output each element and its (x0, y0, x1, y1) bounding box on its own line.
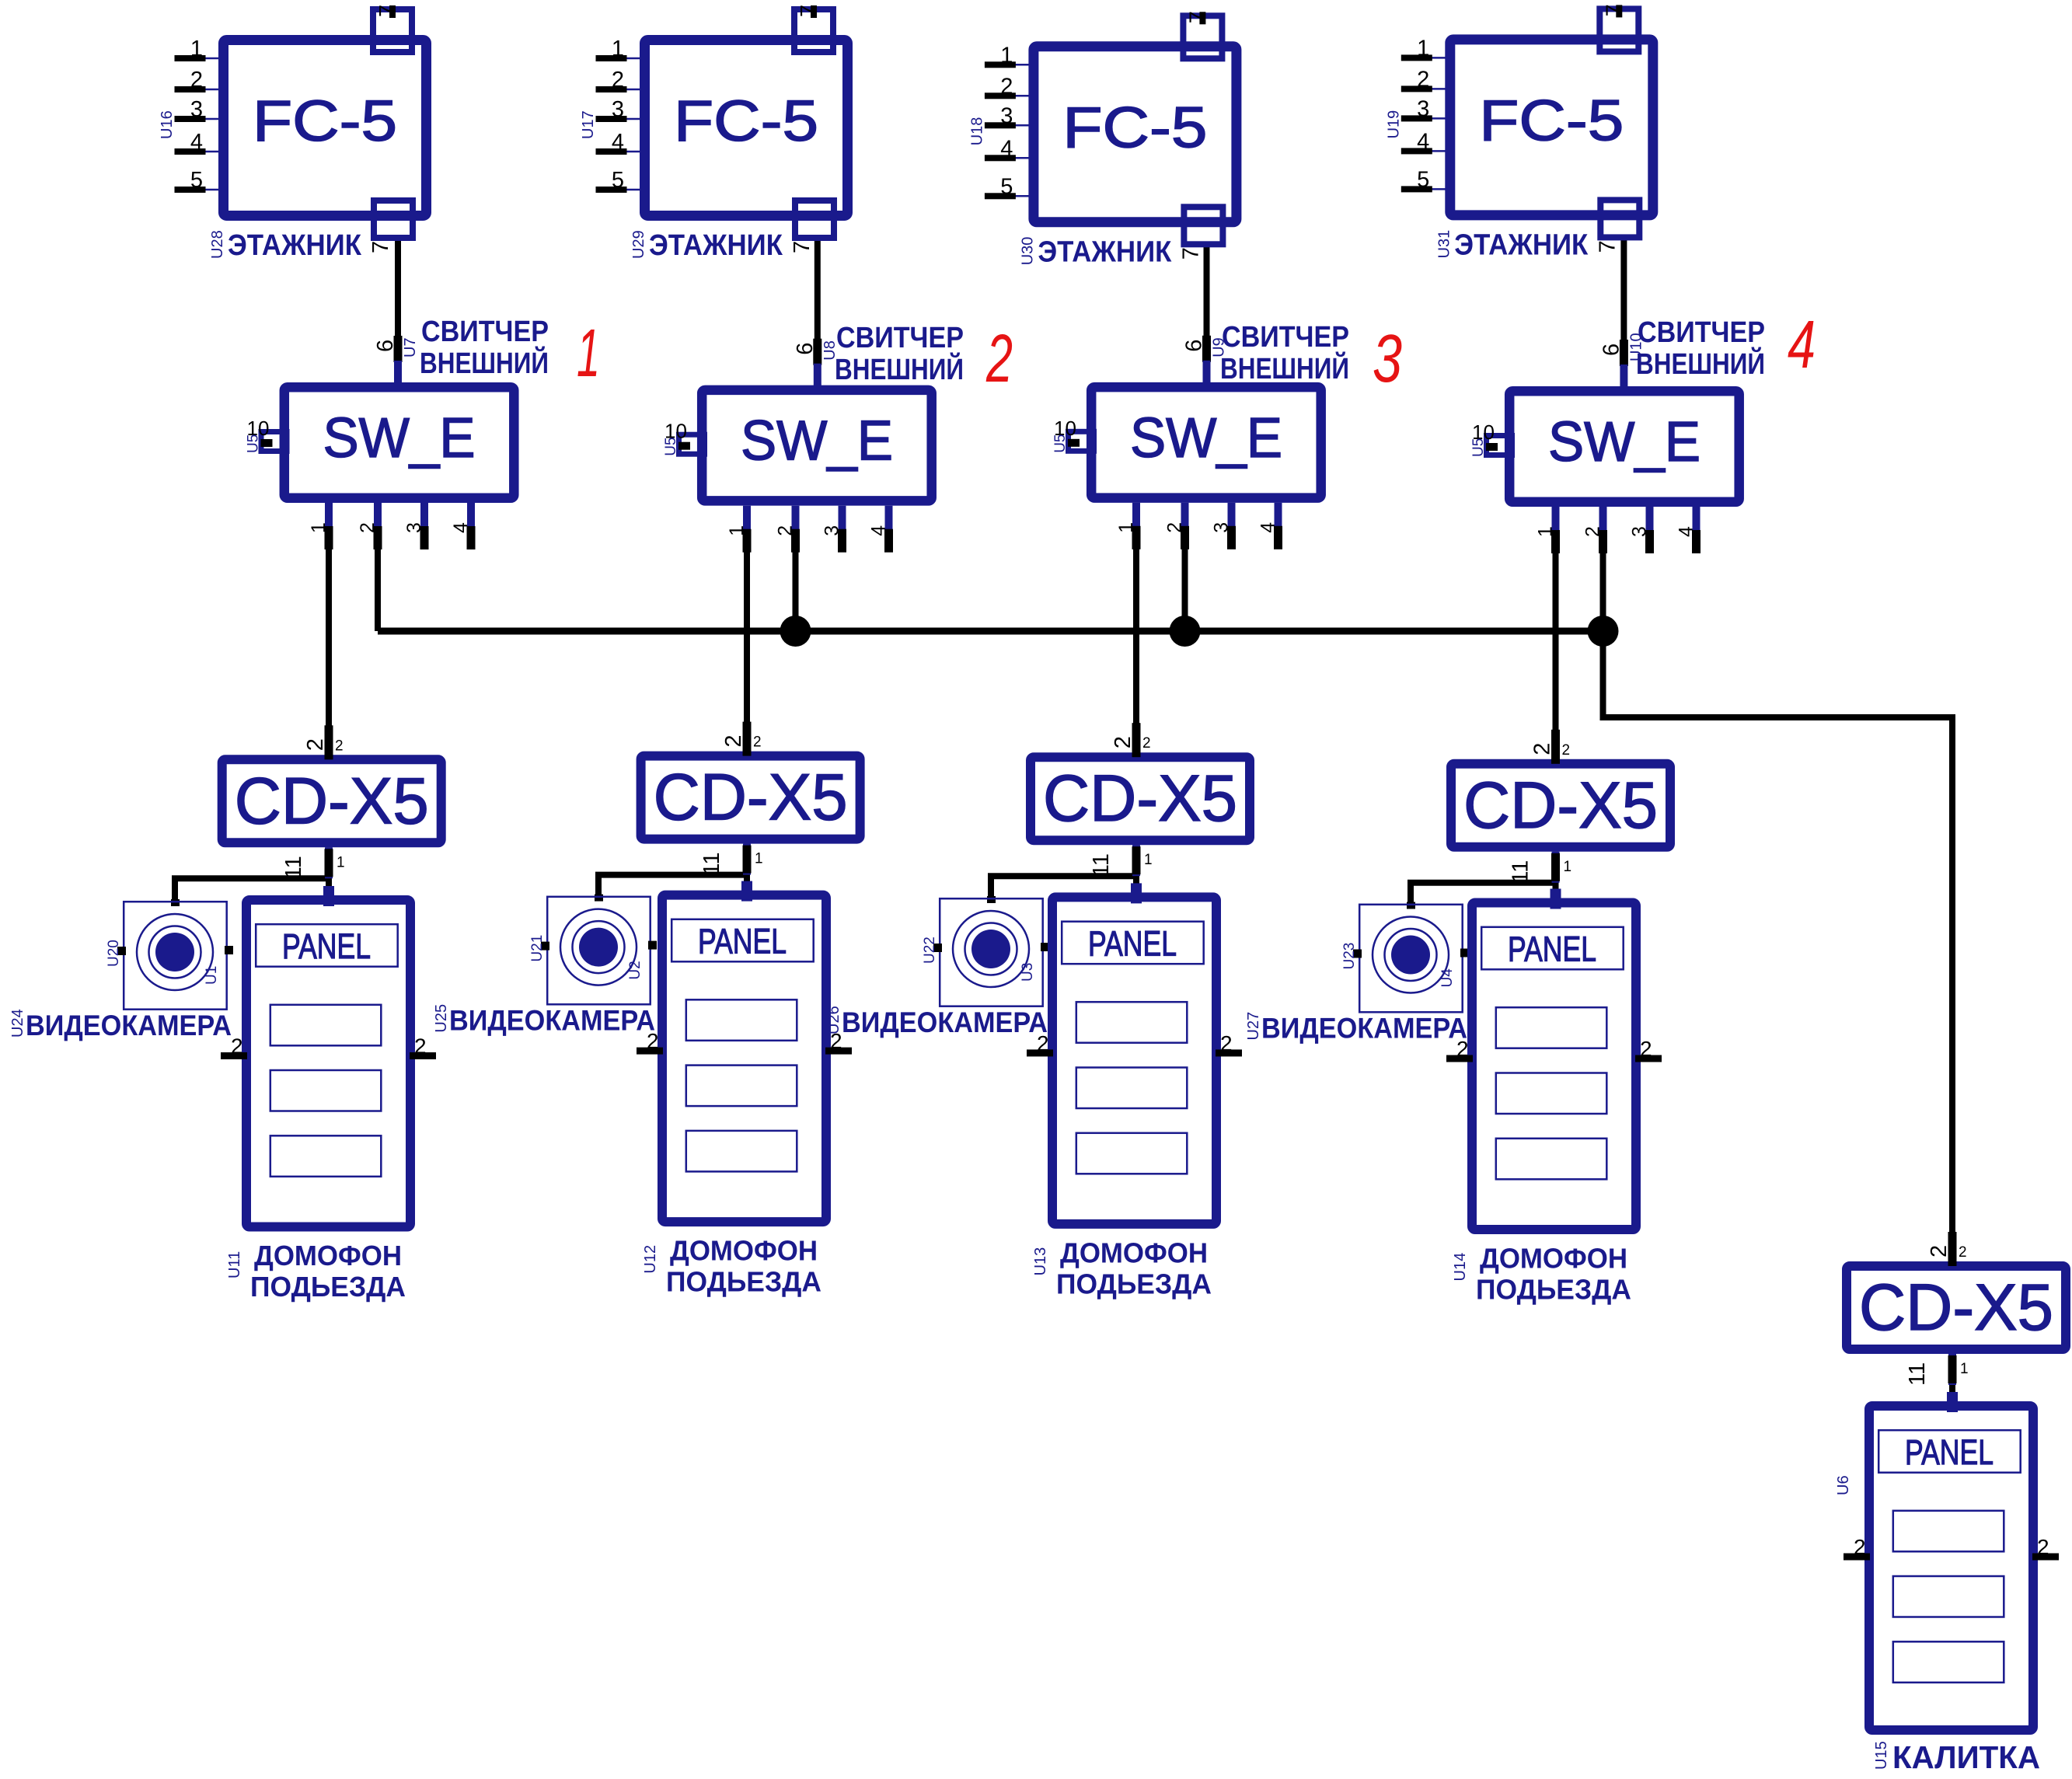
button window 3 (1893, 1641, 2004, 1683)
svg-text:2: 2 (1417, 67, 1429, 92)
svg-text:2: 2 (1582, 526, 1604, 537)
svg-text:2: 2 (1562, 742, 1571, 759)
pin 11/1 (bottom) of U11 distributor (325, 847, 333, 878)
svg-text:U26: U26 (825, 1006, 842, 1034)
svg-text:U17: U17 (580, 110, 597, 139)
video distributor CD-X5 block U6 gate distributor (1847, 1266, 2066, 1349)
svg-text:4: 4 (1000, 136, 1013, 161)
button window 1 (686, 999, 797, 1041)
pin 5 of U19 (1432, 188, 1446, 190)
left pin 2 of panel (1446, 1055, 1473, 1062)
svg-text:ВИДЕОКАМЕРА: ВИДЕОКАМЕРА (26, 1010, 232, 1041)
svg-text:2: 2 (190, 68, 203, 92)
pin 4 stub of U10 (1693, 507, 1701, 552)
pin 3 of U16 (205, 118, 220, 120)
svg-text:1: 1 (1960, 1361, 1969, 1377)
svg-text:3: 3 (612, 97, 624, 122)
bottom connector pin 7 of U29 (795, 201, 834, 238)
pin 11/1 (bottom) of U12 distributor (743, 844, 751, 875)
junction node col 4 (1588, 616, 1619, 647)
svg-text:SW_E: SW_E (323, 407, 476, 469)
intercom panel block U6 gate panel (1869, 1406, 2033, 1730)
svg-text:4: 4 (1258, 522, 1279, 533)
pin 6 stub of U8 (814, 364, 821, 387)
svg-text:U7: U7 (402, 337, 419, 358)
svg-text:FC-5: FC-5 (674, 89, 818, 153)
panel top pin stub col 4 (1551, 889, 1561, 909)
svg-text:2: 2 (1530, 743, 1555, 755)
svg-text:CD-X5: CD-X5 (1043, 762, 1237, 835)
pin 4 of U16 (205, 151, 220, 153)
svg-text:11: 11 (281, 856, 306, 879)
top connector pin 7 of U19 (1599, 9, 1638, 51)
svg-text:ВИДЕОКАМЕРА: ВИДЕОКАМЕРА (1261, 1013, 1467, 1045)
svg-text:5: 5 (190, 168, 203, 193)
svg-text:U23: U23 (1341, 943, 1358, 970)
video camera symbol U3 column 3 (940, 898, 1043, 1006)
svg-text:3: 3 (403, 522, 425, 533)
svg-text:4: 4 (1417, 129, 1429, 154)
svg-text:ЭТАЖНИК: ЭТАЖНИК (1454, 228, 1589, 261)
svg-text:ВНЕШНИЙ: ВНЕШНИЙ (420, 345, 549, 380)
PANEL label box (1878, 1430, 2021, 1473)
pin 2 stub of U10 (1599, 507, 1607, 552)
video camera symbol U2 column 2 (547, 897, 651, 1005)
svg-text:CD-X5: CD-X5 (654, 761, 848, 834)
svg-text:PANEL: PANEL (282, 926, 371, 966)
wire branch to camera col 4 (1411, 883, 1556, 907)
svg-text:2: 2 (753, 734, 762, 751)
svg-text:2: 2 (721, 734, 746, 747)
svg-text:2: 2 (775, 525, 797, 536)
intercom panel block U11 (246, 900, 410, 1227)
svg-text:FC-5: FC-5 (1479, 88, 1624, 152)
svg-text:7: 7 (1185, 11, 1210, 23)
pin 10 connector of U7 (261, 432, 287, 452)
svg-text:1: 1 (577, 316, 600, 391)
gate panel top pin stub (1947, 1392, 1958, 1412)
bottom connector pin 7 of U30 (1184, 207, 1223, 244)
svg-text:6: 6 (373, 340, 398, 352)
svg-text:U11: U11 (226, 1251, 243, 1278)
svg-text:1: 1 (1000, 43, 1013, 68)
svg-text:U15: U15 (1873, 1741, 1890, 1770)
svg-text:7: 7 (375, 5, 400, 17)
svg-text:ДОМОФОН: ДОМОФОН (254, 1240, 402, 1271)
svg-text:СВИТЧЕР: СВИТЧЕР (1638, 316, 1765, 349)
pin 11/1 (bottom) of U13 distributor (1132, 845, 1140, 876)
svg-text:U22: U22 (922, 937, 938, 964)
svg-text:3: 3 (1000, 103, 1013, 128)
svg-text:5: 5 (1417, 167, 1429, 192)
svg-text:PANEL: PANEL (1088, 923, 1177, 963)
svg-text:PANEL: PANEL (1905, 1432, 1994, 1472)
camera top pin tip col 2 (595, 895, 603, 902)
svg-text:4: 4 (450, 522, 472, 533)
svg-text:CD-X5: CD-X5 (1859, 1271, 2053, 1344)
svg-text:ВНЕШНИЙ: ВНЕШНИЙ (1220, 351, 1349, 385)
svg-text:2: 2 (335, 738, 344, 754)
svg-text:U20: U20 (106, 940, 122, 967)
PANEL label box (1481, 927, 1624, 970)
svg-text:ЭТАЖНИК: ЭТАЖНИК (228, 229, 362, 262)
svg-text:U31: U31 (1435, 230, 1453, 259)
svg-text:2: 2 (1111, 736, 1135, 748)
svg-text:U21: U21 (529, 935, 546, 962)
svg-text:4: 4 (612, 130, 624, 155)
pin 1 of U18 (1015, 64, 1030, 66)
svg-text:U13: U13 (1032, 1247, 1049, 1276)
wire FC-5 pin7 to SW_E pin6 col 4 (1620, 235, 1627, 366)
button window 3 (270, 1135, 382, 1177)
svg-text:U28: U28 (209, 230, 226, 259)
svg-text:7: 7 (1595, 240, 1620, 253)
pin 3 stub of U10 (1646, 507, 1654, 552)
svg-text:2: 2 (303, 738, 328, 751)
svg-text:4: 4 (190, 130, 203, 155)
svg-text:1: 1 (1564, 859, 1572, 875)
pin 6 black tip col 4 (1620, 340, 1628, 366)
pin 3 of U18 (1015, 124, 1030, 127)
bottom connector pin 7 of U28 (374, 201, 413, 238)
junction node col 3 (1170, 616, 1201, 647)
pin 2 (top) of U13 distributor (1132, 723, 1141, 757)
svg-text:U16: U16 (159, 110, 176, 139)
camera right pin (1041, 943, 1049, 951)
button window 1 (1076, 1002, 1188, 1043)
external switcher SW_E block U8 column 2 (702, 390, 931, 501)
external switcher SW_E block U7 column 1 (284, 387, 515, 498)
button window 2 (1496, 1073, 1607, 1114)
svg-text:11: 11 (1089, 853, 1114, 877)
svg-text:3: 3 (1629, 526, 1651, 537)
svg-text:ВИДЕОКАМЕРА: ВИДЕОКАМЕРА (842, 1006, 1048, 1038)
right pin 2 of panel (1635, 1055, 1662, 1062)
svg-text:ЭТАЖНИК: ЭТАЖНИК (649, 229, 783, 262)
svg-text:4: 4 (868, 525, 890, 536)
pin 2 stub of U8 (792, 506, 800, 551)
floor unit FC-5 block U16 column 1 (224, 40, 427, 216)
pin 2 (top) of U6 gate distributor (1948, 1232, 1957, 1266)
button window 1 (270, 1005, 382, 1046)
svg-text:U6: U6 (1835, 1475, 1852, 1495)
svg-text:2: 2 (612, 68, 624, 92)
pin 1 of U16 (205, 58, 220, 60)
pin 2 (top) of U11 distributor (325, 725, 333, 759)
svg-text:4: 4 (1788, 307, 1816, 382)
video distributor CD-X5 block U11 distributor (222, 759, 441, 842)
floor unit FC-5 block U17 column 2 (645, 40, 848, 216)
svg-text:5: 5 (612, 168, 624, 193)
button window 2 (270, 1070, 382, 1111)
svg-text:2: 2 (1164, 522, 1186, 533)
svg-text:11: 11 (1905, 1362, 1930, 1386)
svg-text:ВИДЕОКАМЕРА: ВИДЕОКАМЕРА (449, 1005, 655, 1037)
pin 4 of U17 (626, 151, 641, 153)
right pin 2 of panel (2032, 1554, 2059, 1561)
wire SW_E pin2 down to bus col 1 (375, 507, 381, 631)
svg-text:3: 3 (821, 525, 843, 536)
svg-text:7: 7 (1602, 4, 1627, 16)
svg-text:SW_E: SW_E (1130, 407, 1282, 469)
svg-text:3: 3 (190, 97, 203, 122)
wire CD-X5 pin1 to panel col 3 (1133, 845, 1139, 894)
svg-text:U19: U19 (1385, 110, 1402, 139)
wire CD-X5 pin1 to panel col 1 (326, 847, 332, 897)
svg-text:U5: U5 (1052, 434, 1069, 453)
svg-text:1: 1 (1144, 852, 1153, 868)
pin 2 stub of U9 (1181, 503, 1189, 548)
wire FC-5 pin7 to SW_E pin6 col 3 (1204, 242, 1210, 362)
pin 3 stub of U7 (420, 503, 428, 548)
svg-text:7: 7 (368, 241, 393, 253)
svg-text:U29: U29 (630, 230, 647, 259)
PANEL label box (1062, 922, 1204, 964)
svg-text:U2: U2 (627, 961, 644, 979)
svg-text:4: 4 (1676, 526, 1697, 537)
svg-text:СВИТЧЕР: СВИТЧЕР (1222, 321, 1349, 354)
camera top pin tip col 1 (171, 899, 180, 906)
pin 6 black tip col 2 (813, 339, 821, 365)
left pin 2 of panel (637, 1048, 663, 1055)
pin 6 black tip col 3 (1202, 336, 1211, 362)
svg-text:2: 2 (1854, 1535, 1866, 1559)
pin 5 of U16 (205, 189, 220, 191)
svg-text:U5: U5 (246, 434, 262, 453)
bottom connector pin 7 of U31 (1600, 200, 1639, 237)
svg-text:PANEL: PANEL (698, 922, 787, 961)
camera right pin (225, 946, 233, 954)
svg-text:1: 1 (726, 525, 748, 536)
pin 5 of U17 (626, 189, 641, 191)
svg-text:SW_E: SW_E (741, 410, 893, 473)
svg-text:2: 2 (231, 1034, 243, 1059)
svg-text:7: 7 (790, 241, 814, 253)
video distributor CD-X5 block U13 distributor (1031, 757, 1250, 840)
video distributor CD-X5 block U14 distributor (1451, 764, 1670, 847)
svg-text:CD-X5: CD-X5 (235, 764, 429, 837)
wire SW_E pin2 down to bus col 2 (793, 510, 799, 631)
left pin 2 of panel (1027, 1049, 1053, 1056)
external switcher SW_E block U10 column 4 (1509, 391, 1739, 502)
button window 3 (1076, 1133, 1188, 1174)
svg-text:ПОДЬЕЗДА: ПОДЬЕЗДА (1056, 1268, 1212, 1299)
pin 4 stub of U7 (467, 503, 475, 548)
svg-text:SW_E: SW_E (1548, 411, 1701, 473)
svg-text:PANEL: PANEL (1508, 930, 1596, 969)
svg-text:1: 1 (308, 522, 330, 533)
button window 1 (1496, 1007, 1607, 1048)
right pin 2 of panel (410, 1052, 436, 1059)
pin 1 stub of U9 (1132, 503, 1140, 548)
camera left pin (933, 944, 942, 952)
svg-text:U25: U25 (433, 1004, 450, 1033)
pin 2 of U16 (205, 89, 220, 91)
wire gate CD-X5 pin1 to gate panel (1949, 1354, 1955, 1403)
wire FC-5 pin7 to SW_E pin6 col 2 (814, 235, 821, 365)
camera left pin (117, 947, 126, 955)
right pin 2 of panel (1216, 1049, 1242, 1056)
panel top pin stub col 1 (323, 886, 334, 906)
camera left pin (1353, 950, 1362, 958)
wire SW_E pin2 down to bus col 3 (1182, 507, 1188, 631)
svg-text:2: 2 (985, 321, 1013, 396)
wire branch to camera col 3 (991, 876, 1136, 901)
svg-text:FC-5: FC-5 (1062, 95, 1207, 159)
camera left pin (541, 942, 549, 951)
top connector pin 7 of U18 (1183, 16, 1222, 58)
panel top pin stub col 2 (741, 881, 752, 902)
PANEL label box (256, 924, 398, 967)
svg-text:ВНЕШНИЙ: ВНЕШНИЙ (835, 351, 964, 386)
svg-text:U24: U24 (9, 1009, 26, 1038)
svg-text:ВНЕШНИЙ: ВНЕШНИЙ (1636, 346, 1765, 381)
svg-text:3: 3 (1211, 522, 1233, 533)
pin 6 stub of U7 (394, 361, 402, 384)
left pin 2 of panel (221, 1052, 247, 1059)
svg-text:7: 7 (1178, 247, 1203, 260)
pin 2 (top) of U12 distributor (743, 722, 752, 756)
top connector pin 7 of U17 (794, 9, 833, 52)
svg-text:СВИТЧЕР: СВИТЧЕР (836, 322, 964, 354)
svg-text:U18: U18 (968, 117, 985, 146)
pin 10 connector of U10 (1487, 436, 1512, 455)
svg-text:U1: U1 (204, 966, 220, 985)
pin 2 of U18 (1015, 95, 1030, 97)
pin 4 stub of U8 (885, 506, 893, 551)
svg-text:U14: U14 (1452, 1253, 1469, 1282)
pin 5 of U18 (1015, 195, 1030, 197)
right pin 2 of panel (825, 1048, 852, 1055)
svg-text:2: 2 (1142, 735, 1151, 752)
svg-text:3: 3 (1373, 321, 1402, 396)
svg-text:1: 1 (337, 854, 345, 870)
svg-text:6: 6 (1182, 340, 1207, 352)
svg-text:3: 3 (1417, 96, 1429, 121)
pin 2 of U19 (1432, 88, 1446, 90)
camera right pin (1460, 949, 1469, 958)
svg-text:2: 2 (2037, 1535, 2049, 1559)
intercom panel block U14 (1472, 903, 1636, 1230)
svg-text:ДОМОФОН: ДОМОФОН (1480, 1243, 1627, 1275)
svg-text:U3: U3 (1020, 963, 1036, 982)
pin 1 of U17 (626, 58, 641, 60)
pin 4 stub of U9 (1275, 503, 1282, 548)
svg-text:U4: U4 (1439, 968, 1456, 988)
button window 3 (1496, 1139, 1607, 1180)
button window 3 (686, 1131, 797, 1172)
button window 1 (1893, 1511, 2004, 1552)
svg-text:1: 1 (1417, 36, 1429, 61)
panel top pin stub col 3 (1131, 883, 1142, 903)
intercom panel block U13 (1052, 897, 1216, 1224)
svg-text:7: 7 (797, 5, 821, 17)
wire bus elbow to gate CD-X5 (1603, 631, 1953, 1264)
svg-text:2: 2 (1927, 1245, 1952, 1258)
svg-text:2: 2 (1000, 74, 1013, 99)
svg-text:1: 1 (1535, 526, 1557, 537)
svg-text:2: 2 (1959, 1244, 1967, 1261)
svg-text:2: 2 (357, 522, 378, 533)
svg-text:CD-X5: CD-X5 (1463, 769, 1658, 842)
bus wire horizontal (378, 628, 1603, 635)
pin 11/1 (bottom) of U6 gate distributor (1948, 1354, 1956, 1385)
wire CD-X5 pin1 to panel col 2 (744, 844, 750, 892)
pin 6 stub of U10 (1620, 365, 1627, 388)
floor unit FC-5 block U19 column 4 (1450, 40, 1653, 215)
pin 3 of U17 (626, 118, 641, 120)
pin 1 stub of U10 (1552, 507, 1560, 552)
svg-text:2: 2 (414, 1034, 427, 1059)
junction node col 2 (780, 616, 811, 647)
video distributor CD-X5 block U12 distributor (641, 756, 860, 839)
wire SW_E pin1 to CD-X5 pin2 col 3 (1133, 507, 1139, 755)
svg-text:2: 2 (1640, 1037, 1652, 1061)
svg-text:U5: U5 (663, 437, 679, 455)
pin 2 of U17 (626, 89, 641, 91)
camera right pin (648, 941, 657, 950)
pin 3 stub of U9 (1228, 503, 1236, 548)
button window 2 (686, 1066, 797, 1107)
svg-text:ДОМОФОН: ДОМОФОН (1060, 1237, 1208, 1268)
left pin 2 of panel (1844, 1554, 1870, 1561)
pin 2 (top) of U14 distributor (1551, 730, 1560, 764)
svg-text:U30: U30 (1019, 237, 1036, 266)
video camera symbol U4 column 4 (1359, 905, 1463, 1013)
svg-text:1: 1 (1115, 522, 1137, 533)
wire CD-X5 pin1 to panel col 4 (1553, 852, 1559, 900)
svg-text:2: 2 (1220, 1031, 1233, 1055)
pin 6 black tip col 1 (394, 336, 403, 362)
camera top pin tip col 3 (987, 896, 996, 903)
pin 2 stub of U7 (374, 503, 382, 548)
svg-text:5: 5 (1000, 174, 1013, 199)
pin 10 connector of U9 (1069, 431, 1094, 451)
video camera symbol U1 column 1 (124, 902, 227, 1010)
svg-text:6: 6 (1599, 344, 1624, 356)
svg-text:U27: U27 (1245, 1012, 1262, 1041)
wire FC-5 pin7 to SW_E pin6 col 1 (395, 235, 401, 362)
pin 4 of U18 (1015, 157, 1030, 159)
svg-text:КАЛИТКА: КАЛИТКА (1892, 1739, 2040, 1775)
svg-text:ПОДЬЕЗДА: ПОДЬЕЗДА (250, 1271, 406, 1303)
svg-text:6: 6 (793, 343, 818, 355)
wire SW_E pin1 to CD-X5 pin2 col 4 (1553, 511, 1559, 762)
pin 3 of U19 (1432, 117, 1446, 120)
pin 1 stub of U7 (325, 503, 333, 548)
pin 4 of U19 (1432, 150, 1446, 152)
intercom panel block U12 (662, 895, 826, 1223)
svg-text:ДОМОФОН: ДОМОФОН (670, 1235, 818, 1267)
svg-text:ПОДЬЕЗДА: ПОДЬЕЗДА (1476, 1274, 1631, 1306)
pin 3 stub of U8 (839, 506, 846, 551)
button window 2 (1893, 1576, 2004, 1617)
wire SW_E pin1 to CD-X5 pin2 col 2 (744, 510, 750, 755)
pin 6 stub of U9 (1203, 361, 1211, 384)
button window 2 (1076, 1068, 1188, 1109)
wire branch to camera col 1 (175, 878, 329, 904)
svg-text:11: 11 (1509, 860, 1533, 884)
svg-text:1: 1 (612, 37, 624, 61)
camera top pin tip col 4 (1407, 902, 1415, 909)
wire SW_E pin1 to CD-X5 pin2 col 1 (326, 507, 332, 758)
svg-text:ЭТАЖНИК: ЭТАЖНИК (1038, 235, 1172, 268)
external switcher SW_E block U9 column 3 (1091, 387, 1321, 497)
svg-text:1: 1 (755, 851, 763, 867)
pin 11/1 (bottom) of U14 distributor (1552, 852, 1560, 883)
floor unit FC-5 block U18 column 3 (1034, 47, 1237, 222)
svg-text:U12: U12 (642, 1245, 659, 1274)
